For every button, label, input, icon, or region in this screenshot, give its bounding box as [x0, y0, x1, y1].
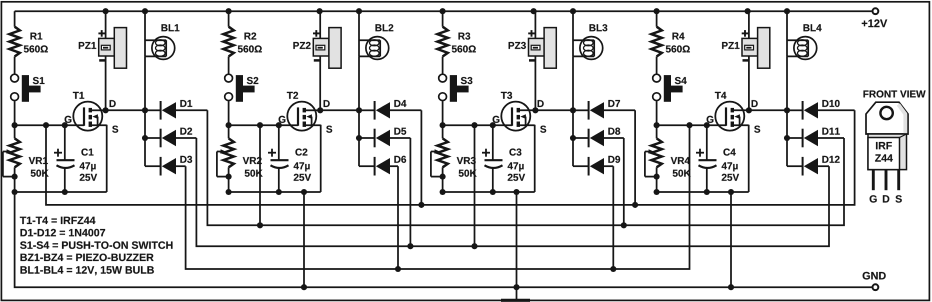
wire switch to gate node	[442, 101, 444, 138]
wire diode column	[570, 110, 589, 166]
switch S1 push-to-on	[11, 74, 45, 102]
capacitor C1 47u 25V	[54, 125, 97, 192]
wire diode column	[356, 110, 375, 166]
bulb BL3	[573, 11, 607, 59]
bulb BL2	[359, 11, 393, 59]
node GND terminal	[863, 272, 886, 290]
node drain of T1	[103, 107, 149, 113]
wire gate row	[654, 122, 726, 128]
wire bulb to drain node	[144, 56, 146, 110]
wire D5 drop	[407, 138, 413, 249]
wire diode column	[784, 110, 803, 166]
wire gate row	[12, 122, 84, 128]
wire R2 to switch	[228, 57, 230, 74]
piezo buzzer PZ3	[509, 11, 557, 110]
piezo buzzer PZ1	[79, 11, 127, 110]
wire switch to gate node	[656, 101, 658, 138]
legend component list	[20, 217, 173, 276]
diode D8 1N4007	[589, 128, 624, 148]
wire VR bottom / wiper junction	[226, 167, 232, 192]
wire switch to gate node	[14, 101, 16, 138]
wire R3 top lead	[442, 11, 444, 27]
wire R2 top lead	[228, 11, 230, 27]
resistor R3 560 ohm	[437, 27, 475, 57]
capacitor C4 47u 25V	[696, 125, 739, 192]
diode D3 1N4007	[161, 156, 192, 176]
node +12V terminal	[862, 8, 887, 27]
piezo buzzer PZ2	[293, 11, 341, 110]
wire VR bottom / wiper junction	[654, 167, 660, 192]
wire ground drop stage 2	[301, 189, 307, 290]
potentiometer VR2 50K	[217, 138, 263, 176]
resistor R2 560 ohm	[223, 27, 261, 57]
transistor package front view IRF Z44	[864, 90, 926, 202]
wire source/ground bus of stage	[654, 125, 749, 195]
wire bus gate3 (D2,D5,D12)	[196, 138, 829, 246]
wire ground drop stage 4	[728, 189, 734, 290]
bulb BL4	[787, 11, 822, 59]
wire bottom edge tick	[501, 299, 530, 302]
wire ground drop stage 3	[513, 189, 519, 301]
wire switch to gate node	[228, 101, 230, 138]
wire R3 to switch	[442, 57, 444, 74]
switch S2 push-to-on	[225, 74, 259, 102]
wire bulb to drain node	[786, 56, 788, 110]
wire bulb to drain node	[358, 56, 360, 110]
wire gate row	[440, 122, 512, 128]
wire bus gate2 (D1,D8,D11)	[207, 110, 844, 225]
wire source/ground bus of stage	[440, 125, 535, 195]
diode D7 1N4007	[589, 100, 636, 120]
wire gate drop stage 3	[471, 125, 477, 249]
diode D2 1N4007	[161, 128, 197, 148]
node drain of T3	[532, 107, 576, 113]
wire D4 drop	[418, 110, 424, 208]
wire bus gate4 (D3,D6,D9)	[186, 125, 690, 269]
wire D9 drop	[610, 166, 616, 272]
wire bulb to drain node	[572, 56, 574, 110]
switch S3 push-to-on	[439, 74, 473, 102]
wire gate row	[226, 122, 298, 128]
diode D11 1N4007	[803, 128, 844, 148]
transistor T3 IRFZ44 MOSFET	[493, 92, 547, 133]
transistor T1 IRFZ44 MOSFET	[65, 92, 119, 133]
wire D8 drop	[621, 138, 627, 228]
potentiometer VR1 50K	[3, 138, 49, 176]
wire D6 drop	[395, 166, 401, 272]
transistor T2 IRFZ44 MOSFET	[279, 92, 333, 133]
wire VR bottom / wiper junction	[12, 167, 18, 192]
wire diode column	[142, 110, 161, 166]
transistor T4 IRFZ44 MOSFET	[707, 92, 761, 133]
diode D10 1N4007	[803, 100, 855, 120]
wire bus gate1 (D4,D7,D10)	[46, 110, 855, 205]
wire ground bus	[15, 192, 872, 287]
wire gate drop stage 2	[257, 125, 263, 228]
piezo buzzer PZ1	[722, 11, 770, 110]
wire +12V top rail	[15, 8, 872, 14]
wire R4 top lead	[656, 11, 658, 27]
resistor R4 560 ohm	[651, 27, 689, 57]
wire source/ground bus of stage	[226, 125, 321, 195]
wire VR bottom / wiper junction	[440, 167, 446, 192]
bulb BL1	[145, 11, 179, 59]
potentiometer VR3 50K	[431, 138, 477, 176]
wire source/ground bus of stage	[12, 125, 107, 195]
wire R4 to switch	[656, 57, 658, 74]
node drain of T4	[746, 107, 790, 113]
diode D5 1N4007	[375, 128, 411, 148]
node drain of T2	[317, 107, 362, 113]
wire D7 drop	[632, 110, 638, 208]
diode D6 1N4007	[375, 156, 407, 176]
diode D1 1N4007	[161, 100, 208, 120]
resistor R1 560 ohm	[9, 27, 47, 57]
capacitor C2 47u 25V	[268, 125, 311, 192]
switch S4 push-to-on	[653, 74, 687, 102]
diode D4 1N4007	[375, 100, 422, 120]
wire R1 top lead	[14, 11, 16, 27]
wire R1 to switch	[14, 57, 16, 74]
diode D12 1N4007	[803, 156, 840, 176]
capacitor C3 47u 25V	[482, 125, 525, 192]
diode D9 1N4007	[589, 156, 621, 176]
potentiometer VR4 50K	[645, 138, 691, 176]
